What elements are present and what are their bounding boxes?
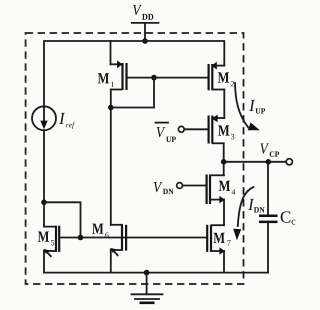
label Vdn <box>154 182 174 194</box>
terminal Vcp output <box>286 159 292 165</box>
label M4 <box>219 181 235 195</box>
wire bottom ground rail <box>44 272 268 274</box>
transistor M4 <box>207 162 225 225</box>
current arrow Idn <box>233 187 253 240</box>
wire M1 gate to M2 gate <box>127 77 209 79</box>
label Idn <box>248 199 264 213</box>
junction M1 drain node <box>108 105 114 111</box>
junction Vcp node <box>221 159 227 165</box>
transistor M2 <box>209 62 225 118</box>
label M6 <box>92 224 108 238</box>
transistor M3 <box>209 115 225 162</box>
label M3 <box>218 125 234 139</box>
wire Vcp node to output <box>224 161 287 163</box>
capacitor Cc <box>259 162 278 273</box>
label M1 <box>98 73 114 87</box>
transistor M7 <box>207 225 225 273</box>
wire VDD down to rail <box>144 23 146 41</box>
label M7 <box>214 233 231 246</box>
label Iup <box>249 100 265 114</box>
wire gate junction down to drain node <box>111 78 154 108</box>
label VDD <box>133 5 153 20</box>
label Vcp <box>260 143 279 157</box>
ground symbol <box>132 273 163 303</box>
wire Vup to M3 gate <box>184 128 208 130</box>
wire M1 drain to M6 drain <box>110 108 112 225</box>
transistor M5 <box>43 226 59 273</box>
junction bias line <box>78 235 84 241</box>
wire Iref to node X <box>43 130 45 202</box>
power VDD bar <box>132 22 159 24</box>
transistor M1 <box>111 41 127 108</box>
current arrow Iup <box>235 83 260 130</box>
wire node X to bias line <box>44 202 81 237</box>
junction Cc branch <box>266 159 272 165</box>
junction ground <box>144 270 150 276</box>
transistor M6 <box>110 225 126 273</box>
label Iref <box>59 113 75 129</box>
label M2 <box>218 72 234 86</box>
junction VDD on rail <box>142 38 148 44</box>
junction gate line <box>151 75 157 81</box>
label Vup with overline <box>156 123 176 142</box>
label Cc <box>281 211 296 224</box>
junction node X <box>41 200 47 206</box>
current source Iref <box>32 106 56 130</box>
wire top supply rail <box>44 41 224 106</box>
wire Vdn to M4 gate <box>183 185 206 187</box>
chip boundary dashed box <box>26 33 244 284</box>
terminal Vup <box>178 126 184 132</box>
wire node X to M5 drain <box>44 202 56 226</box>
terminal Vdn <box>177 183 183 189</box>
wire gate bias line M5-M6-M7 <box>60 237 206 239</box>
label M5 <box>38 231 54 245</box>
